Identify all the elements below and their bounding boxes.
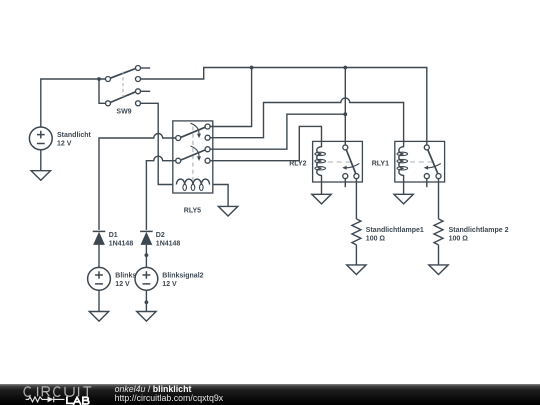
wire D2 anode to Blinksignal2 plus	[145, 245, 147, 268]
svg-text:D1: D1	[109, 232, 118, 239]
svg-text:Standlichtlampe1: Standlichtlampe1	[366, 227, 424, 234]
svg-text:12 V: 12 V	[162, 281, 177, 288]
relay RLY1	[372, 141, 445, 182]
relay RLY2	[289, 141, 362, 182]
wire junction to SW9 pole2	[99, 79, 105, 103]
ground (RLY1 coil)	[394, 194, 413, 204]
ground (Blinksignal2)	[137, 312, 156, 322]
svg-text:RLY5: RLY5	[184, 207, 201, 214]
node top rail / RLY5 throw1	[250, 66, 254, 70]
voltage source Blinksignal1 12 V	[88, 267, 111, 290]
resistor Standlichtlampe1 100 Ohm	[352, 219, 424, 245]
wire stub SW9 throw1	[141, 67, 151, 69]
wire SW9 throw4 to RLY5 coil left	[141, 103, 173, 184]
wire Blinksignal2 minus to ground	[145, 290, 147, 311]
ground (Standlicht)	[31, 171, 50, 181]
ground (R2)	[429, 265, 448, 275]
svg-text:D2: D2	[156, 232, 165, 239]
svg-text:12 V: 12 V	[57, 141, 72, 148]
wire RLY5 coil right to ground	[213, 185, 228, 207]
wire Standlicht top to SW9 pole1	[41, 79, 106, 127]
logo word LAB	[67, 397, 89, 404]
wire RLY1 coil bottom to ground	[403, 175, 405, 194]
ground (R1)	[347, 265, 366, 275]
wire RLY2 coil bottom to ground	[321, 175, 323, 194]
node junction dots	[97, 66, 347, 305]
svg-text:1N4148: 1N4148	[109, 241, 134, 248]
svg-text:Blinksignal2: Blinksignal2	[162, 272, 203, 279]
voltage source Standlicht 12 V	[29, 127, 91, 150]
svg-text:100 Ω: 100 Ω	[449, 235, 469, 242]
wire RLY1 NC stub	[426, 179, 428, 187]
node SW9 input junction	[97, 77, 101, 81]
voltage source Blinksignal2 12 V	[135, 267, 204, 290]
coil of RLY2	[317, 141, 322, 175]
wire Standlicht bottom to ground	[40, 150, 42, 171]
svg-text:100 Ω: 100 Ω	[366, 235, 386, 242]
logo word CIRCUIT (thin light strokes)	[24, 387, 91, 397]
coil of RLY5	[176, 179, 209, 184]
wire top rail to RLY2 switch common	[344, 68, 346, 145]
wire RLY5 throw4 to RLY2 coil	[210, 126, 321, 160]
wire RLY5 pole1 to D1 branch (hop over x=158.2)	[99, 134, 176, 230]
diode D1 1N4148	[93, 231, 134, 247]
svg-text:Standlicht: Standlicht	[57, 132, 92, 139]
diode D2 1N4148	[140, 231, 180, 247]
ground (RLY5 coil)	[218, 206, 237, 216]
wire Blinksignal1 minus to ground	[98, 290, 100, 311]
wire R1 to ground	[355, 245, 357, 265]
node Blinksignal2 minus	[145, 300, 149, 304]
wire RLY5 throw3 to node at x=345.3	[210, 114, 345, 149]
node D2 anode	[145, 253, 149, 257]
wire SW9 throw2 to top rail to RLY1 switch common	[141, 68, 427, 145]
svg-text:12 V: 12 V	[115, 281, 130, 288]
wire RLY1 NO to resistor R2	[438, 179, 440, 219]
svg-text:RLY1: RLY1	[372, 160, 389, 167]
CircuitLab logo	[0, 384, 110, 405]
logo resistor-diode squiggle	[26, 397, 65, 403]
wire RLY5 pole2 to D2 branch (hop over x=158.2)	[146, 156, 175, 230]
node RLY5 throw3 joins RLY2 feed	[343, 112, 347, 116]
wire RLY2 NC stub	[344, 179, 346, 187]
svg-text:1N4148: 1N4148	[156, 241, 181, 248]
relay RLY5	[173, 121, 213, 214]
coil of RLY1	[399, 141, 404, 175]
svg-text:SW9: SW9	[116, 109, 131, 116]
ground (RLY2 coil)	[312, 194, 331, 204]
wire RLY2 NO to resistor R1	[355, 179, 357, 219]
footer bar	[0, 384, 540, 405]
node top rail / RLY2 feed	[343, 66, 347, 70]
wire R2 to ground	[438, 245, 440, 265]
svg-text:RLY2: RLY2	[289, 160, 306, 167]
wire stub SW9 throw3	[141, 90, 151, 92]
wire RLY5 throw2 to RLY1 coil (hop over x=345.3)	[210, 98, 403, 141]
resistor Standlichtlampe 2 100 Ohm	[434, 219, 509, 245]
wire D1 anode to Blinksignal1 plus	[98, 245, 100, 268]
wire top rail to RLY5 throw1	[210, 68, 251, 127]
svg-text:Standlichtlampe 2: Standlichtlampe 2	[449, 227, 509, 234]
switch SW9	[106, 66, 141, 116]
ground (Blinksignal1)	[89, 312, 108, 322]
